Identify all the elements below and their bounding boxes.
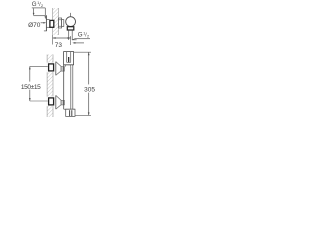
escutcheon edge-on (top figure) [45,15,47,31]
dimension 73: line and arrowheads [53,37,71,39]
pipe stem below circle [68,30,70,40]
wall section (top figure) hatched [53,8,59,35]
right G1/2 underline leader [75,38,90,40]
dimension 305: vertical line with arrows [88,52,90,115]
dimension 150+-15: text [21,82,42,90]
leader down-arrow [33,8,35,13]
centre tick above circle [70,13,72,17]
svg-text:305: 305 [84,87,95,94]
label G1/2 (top-left thread spec) [32,1,43,8]
upper S-union: escutcheon edge-on [55,62,57,76]
dimension 73: text [55,42,63,49]
dimension 150+-15: vertical line with arrows [29,66,31,101]
dimension 305: extension lines [74,51,91,53]
outlet dark bars [69,110,70,116]
dimension 150+-15: extension lines [30,65,48,67]
svg-text:2: 2 [41,4,43,8]
label G1/2 (right thread spec) [78,32,89,39]
wall anchor nut (square, top figure) [50,20,54,27]
nut under circle [67,27,74,30]
mixer body column edges [63,65,65,109]
lower wall fitting square [49,98,54,105]
upper S-union threaded nipple [61,67,64,72]
svg-text:150±15: 150±15 [21,84,41,91]
union nut top/bottom edges [46,19,49,21]
O70 leader arrow [41,22,45,24]
upper S-union cone [56,62,61,67]
dimension 305: text [84,84,96,92]
mixer top box (side view) [64,52,74,65]
fitting behind wall: stepped body [59,18,62,28]
svg-text:G: G [78,32,83,39]
wall section (front figure) hatched [47,55,53,118]
stem foot line [72,39,76,41]
right G1/2 leader arrow [74,42,85,44]
union ball (circle behind wall) [66,17,76,27]
upper wall fitting white break [47,63,55,73]
screw inside top box [68,57,69,62]
svg-text:Ø70: Ø70 [28,22,41,29]
upper wall fitting square [49,64,54,71]
escutcheon bottom short line [44,30,47,32]
lower S-union threaded nipple [61,100,64,105]
svg-text:2: 2 [87,35,89,39]
lower S-union: escutcheon edge-on [55,95,57,109]
cap line under top box [64,64,73,66]
lower wall fitting white break [47,97,55,107]
label O70 (escutcheon diameter) [28,22,41,29]
svg-text:G: G [32,1,37,8]
bottom outlet box [66,109,75,116]
leader vertical to fitting [44,8,46,16]
lower S-union cone [56,95,61,100]
leader underline of G1/2 [32,7,46,9]
pipe line (top of union, room side) [33,15,45,17]
dimension 73: extension lines [52,35,54,45]
column bottom line [64,108,75,110]
svg-text:73: 73 [55,42,63,49]
